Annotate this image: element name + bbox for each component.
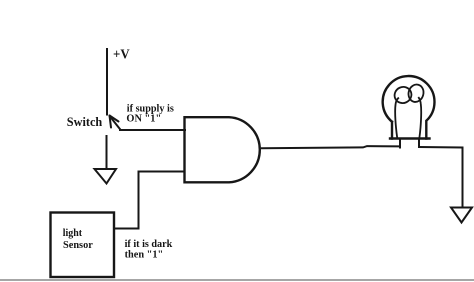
svg-text:Sensor: Sensor <box>63 239 93 251</box>
wire switch to gate input A <box>120 129 185 131</box>
wire sensor to gate input B <box>115 172 185 229</box>
svg-text:ON "1": ON "1" <box>126 113 161 125</box>
lamp base <box>390 137 430 139</box>
svg-text:+V: +V <box>113 48 130 63</box>
lamp left pin <box>399 139 401 148</box>
ground (right) <box>451 208 472 223</box>
light sensor box <box>51 213 115 278</box>
switch arrow <box>110 116 121 130</box>
lamp filament left loop <box>392 84 414 106</box>
wire gate output to lamp <box>262 146 400 148</box>
lamp filament right loop <box>407 83 426 104</box>
wire below switch to ground <box>106 136 108 169</box>
ground (left) <box>95 169 117 184</box>
AND gate <box>185 117 260 182</box>
lamp filament left leg <box>395 98 398 138</box>
svg-text:then "1": then "1" <box>125 249 164 261</box>
svg-text:Switch: Switch <box>67 115 102 129</box>
wire lamp to ground (right) <box>419 147 463 207</box>
lamp filament right leg <box>419 98 421 139</box>
lamp bulb glass <box>383 76 435 138</box>
svg-text:light: light <box>63 227 83 239</box>
lamp right pin <box>418 139 420 148</box>
power rail +V line <box>106 49 108 115</box>
